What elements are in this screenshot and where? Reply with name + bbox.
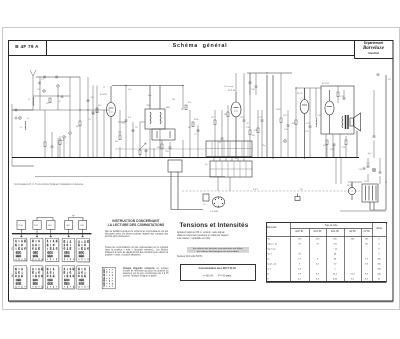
capacitor C6 [132, 130, 135, 131]
table text layer [266, 222, 386, 224]
svg-text:MF2: MF2 [166, 107, 171, 109]
wire left PU input [12, 165, 34, 167]
schematic caption [14, 183, 99, 186]
capacitor C19 [379, 172, 382, 173]
bracket tubes 2-3 [37, 218, 53, 221]
svg-text:R6: R6 [188, 127, 192, 129]
svg-text:L4: L4 [27, 118, 30, 120]
frame bottom shadow [9, 301, 393, 303]
resistor R9 [249, 130, 251, 135]
socket symbol box K4 [65, 221, 73, 230]
tensions paragraph [177, 231, 261, 240]
wire e [215, 105, 228, 158]
header divider left [46, 40, 48, 56]
svg-text:R3: R3 [92, 114, 96, 116]
resistor R15 [345, 140, 347, 145]
resistor R6 [192, 122, 194, 127]
commutation chart B5 [77, 266, 90, 290]
capacitor C14 [367, 166, 370, 167]
socket symbol box K3 [47, 221, 55, 230]
capacitor C8 [221, 138, 224, 139]
svg-text:EZ 80: EZ 80 [347, 185, 353, 187]
wire K5 drop [82, 229, 84, 233]
table col tube4 divider [361, 229, 363, 282]
arrow to chart 4 [68, 234, 70, 237]
IF transformer MF1b [152, 129, 175, 140]
power transformer TR2 [362, 184, 378, 210]
svg-text:LP: LP [203, 204, 206, 206]
tensions note lines [187, 247, 249, 253]
tube base bottom view [212, 197, 224, 207]
legend box [102, 267, 115, 289]
wire f [236, 73, 250, 158]
capacitor C1 [39, 82, 40, 85]
svg-text:MX1: MX1 [34, 225, 38, 227]
table col tube3 divider [344, 229, 346, 282]
wire osc line [33, 95, 70, 97]
antenna A1 [30, 70, 36, 110]
wire m top cluster [250, 73, 256, 95]
jack symbol [295, 194, 300, 201]
pentode V2 ECF80 [231, 92, 241, 158]
wire n [258, 110, 262, 158]
resistor R11 [295, 120, 297, 125]
side label AM [11, 274, 14, 277]
secteur line [177, 255, 252, 258]
commutation bus bar [12, 233, 92, 235]
svg-text:ECH 81: ECH 81 [100, 94, 108, 96]
resistor R18 [139, 150, 141, 155]
socket labels [18, 224, 84, 227]
arrow to chart 3 [50, 234, 52, 237]
svg-text:C14: C14 [90, 97, 95, 99]
instruction paragraph 1 [105, 230, 168, 238]
loudspeaker LS1 [350, 113, 361, 158]
resistor R2 [79, 121, 81, 126]
wire r stubs [45, 110, 154, 158]
table col tube2 divider [326, 229, 328, 282]
wire AVC vertical pair [267, 75, 273, 158]
svg-text:0,1: 0,1 [128, 117, 132, 119]
wire s right riser [60, 90, 374, 158]
table header bottom rule [267, 236, 387, 238]
svg-text:6,3 V: 6,3 V [253, 189, 258, 191]
trimmer CT1 [43, 90, 46, 93]
svg-text:HT: HT [388, 79, 392, 81]
svg-text:C4: C4 [88, 119, 92, 121]
chassis ground bus [12, 157, 359, 159]
svg-text:C9: C9 [246, 123, 250, 125]
svg-text:UY42: UY42 [18, 225, 23, 227]
svg-text:C11: C11 [305, 131, 310, 133]
voltage table bottom heavy rule [266, 281, 387, 283]
side label FM [12, 247, 14, 250]
table header type de tube rule [291, 228, 373, 230]
svg-text:ECL 86: ECL 86 [322, 83, 330, 85]
svg-text:C13: C13 [358, 169, 363, 171]
volume pot arrow [139, 143, 146, 150]
capacitor C17 [261, 120, 264, 121]
capacitor C1b [44, 76, 45, 79]
wire p bottom right [340, 158, 386, 211]
table col electrode divider [290, 223, 292, 282]
resistor R16 [161, 144, 163, 149]
svg-text:AM: AM [11, 274, 14, 277]
resistor R19b [59, 140, 61, 145]
output pentode V4 ECL86 [325, 90, 334, 134]
svg-text:ECF 80: ECF 80 [228, 90, 236, 92]
wire left input [12, 109, 33, 111]
svg-text:EF 85: EF 85 [297, 93, 303, 95]
resistor R1 [49, 98, 51, 103]
svg-text:10n: 10n [128, 89, 132, 91]
svg-text:S4: S4 [300, 189, 303, 191]
capacitor C12 [343, 98, 346, 99]
wire mid light [115, 148, 205, 150]
svg-text:C1: C1 [41, 79, 45, 81]
switch block S1a upper [206, 141, 252, 157]
wire top mid rail [247, 72, 292, 74]
svg-text:R4: R4 [115, 141, 119, 143]
svg-text:BF1: BF1 [48, 225, 51, 227]
capacitor C11 [309, 126, 312, 127]
arrow to chart 5 [82, 234, 84, 237]
trimmer CT5 [69, 132, 72, 135]
resistor R14 [326, 140, 328, 145]
tensions heading [180, 222, 380, 229]
svg-text:C2: C2 [58, 101, 62, 103]
wire k power [336, 158, 386, 210]
wire j heater drops [214, 158, 244, 191]
input jack J1 [12, 104, 17, 166]
dept box text [354, 41, 393, 55]
svg-text:C41: C41 [366, 163, 371, 165]
capacitor C13 [363, 168, 366, 169]
svg-text:L7: L7 [103, 87, 106, 89]
resistor R12 [337, 92, 339, 97]
pilot lamp LA1 [372, 168, 376, 172]
commutation chart B2 [31, 266, 44, 289]
wire b [88, 77, 97, 158]
svg-text:47k: 47k [188, 102, 192, 104]
commutation chart A1 [14, 238, 27, 261]
capacitor C18 [333, 144, 336, 145]
switch block S1 [210, 161, 252, 177]
trimmer CT2 [57, 85, 60, 88]
arrow to chart 1 [20, 234, 22, 237]
sheet title [46, 43, 354, 49]
pentode V3 [300, 88, 309, 158]
wire K4 drop [68, 229, 70, 233]
svg-text:R5: R5 [181, 109, 185, 111]
capacitor C15 [249, 82, 252, 83]
table col tube1 divider [309, 229, 311, 282]
capacitor C23 [373, 136, 376, 137]
svg-text:R12: R12 [283, 115, 288, 117]
coupling block [168, 160, 203, 210]
resistor R4 [119, 135, 121, 140]
coil L1 [32, 97, 35, 106]
wire K3 drop [50, 229, 52, 233]
wire q mid [118, 122, 170, 158]
header right cell bottom [355, 58, 394, 60]
wire i [326, 86, 344, 158]
wire K1 drop [20, 229, 22, 233]
trimmer CT6 [284, 140, 287, 143]
output transformer TR1 [342, 115, 348, 129]
commutation chart A5 [77, 238, 90, 262]
commutation chart A2 [31, 238, 44, 261]
svg-text:7 · - ·: 7 · - · [103, 285, 113, 288]
svg-text:C16: C16 [251, 89, 256, 91]
wire o below box [327, 136, 346, 158]
capacitor C4 [92, 112, 95, 113]
wire K2 drop [36, 229, 38, 233]
commutation chart B1 [14, 266, 27, 289]
capacitor C10 [287, 125, 290, 126]
capacitor C24 [377, 74, 380, 75]
resistor R5 [185, 105, 187, 110]
svg-text:HP: HP [72, 216, 75, 218]
svg-text:1M: 1M [172, 99, 175, 101]
capacitor C21 [51, 146, 54, 147]
capacitor C16 [255, 86, 258, 87]
resistor R8 [227, 112, 229, 117]
svg-text:C6: C6 [135, 127, 139, 129]
svg-text:L1: L1 [28, 99, 31, 101]
capacitor C20 [169, 147, 172, 148]
triode-heptode V1 ECH81 [106, 86, 115, 158]
svg-text:OS1: OS1 [80, 225, 84, 227]
capacitor C7 [197, 130, 200, 131]
svg-text:4µ7: 4µ7 [368, 153, 372, 155]
wire dashed heater rail [182, 190, 360, 192]
consommation box [180, 264, 256, 281]
resistor R17 [44, 142, 46, 147]
connector box LP [203, 194, 209, 201]
capacitor C22b [145, 150, 148, 151]
resistor R3 [96, 108, 98, 113]
svg-text:L13 comp: L13 comp [224, 86, 234, 88]
socket symbol box K2 [33, 221, 41, 230]
border frame [9, 41, 394, 302]
svg-text:25µ: 25µ [262, 145, 266, 147]
svg-text:L2: L2 [20, 127, 23, 129]
instruction paragraph 2 [105, 246, 168, 256]
svg-text:C20: C20 [165, 151, 170, 153]
capacitor C9 [243, 120, 246, 121]
wire h [296, 88, 321, 100]
commutation chart B3 [45, 266, 59, 289]
svg-text:R1: R1 [46, 103, 50, 105]
wire d [150, 86, 198, 159]
voltage table outer box [267, 223, 387, 282]
bracket tubes 4-5 [69, 218, 84, 221]
capacitor C1c [56, 76, 57, 79]
socket symbol box K1 [17, 221, 26, 230]
resistor R13 [257, 128, 259, 133]
svg-text:2k2: 2k2 [98, 105, 102, 107]
svg-text:L.P 6080: L.P 6080 [210, 211, 219, 213]
wire tuning gang line [12, 109, 110, 111]
resistor R7 [214, 120, 216, 125]
socket symbol box K5 [79, 221, 87, 230]
svg-text:R9: R9 [252, 135, 256, 137]
trimmer CT4 [63, 136, 66, 139]
wire g [281, 73, 316, 158]
header band bottom rule [8, 55, 354, 57]
wire grid rail V1 [112, 85, 183, 87]
svg-text:R19: R19 [118, 132, 123, 134]
wire c [120, 86, 133, 159]
wire B+ rail vertical [385, 75, 387, 210]
svg-text:R7: R7 [211, 117, 215, 119]
table col unites divider [372, 223, 374, 282]
svg-text:C7: C7 [194, 134, 198, 136]
capacitor C5 [125, 120, 128, 121]
instruction block title [104, 219, 168, 227]
bracket label [72, 216, 75, 218]
capacitor C3 [87, 100, 90, 101]
svg-text:220k: 220k [194, 119, 199, 121]
wire top-left rail [36, 76, 80, 78]
wire lower rail [35, 176, 225, 178]
rectifier V5 EZ80 [348, 182, 355, 200]
commutation chart A3 [45, 238, 59, 262]
header divider right [354, 40, 356, 59]
svg-text:R13: R13 [254, 130, 259, 132]
capacitor C2 [61, 96, 64, 97]
svg-text:C8: C8 [218, 142, 222, 144]
coil L3 [315, 118, 318, 127]
svg-text:TR: TR [364, 181, 367, 183]
svg-text:S1: S1 [205, 164, 208, 166]
coil L2 [24, 121, 27, 130]
svg-text:100k: 100k [276, 109, 281, 111]
svg-text:CA1: CA1 [66, 224, 70, 227]
trimmer CT3 [19, 117, 22, 120]
svg-text:R2: R2 [76, 126, 80, 128]
commutation chart B4 [62, 266, 75, 289]
resistor R10 [280, 118, 282, 123]
IF transformer MF1 [145, 86, 165, 130]
instruction paragraph 3 [123, 267, 169, 277]
svg-text:C5: C5 [122, 123, 126, 125]
model number [8, 44, 46, 49]
arrow to chart 2 [36, 234, 38, 237]
svg-text:FM: FM [12, 247, 14, 250]
commutation chart A4 [62, 238, 75, 261]
output stage box [321, 86, 354, 134]
svg-text:L18: L18 [318, 115, 322, 117]
voltage table right shadow [386, 224, 388, 282]
wire a [40, 77, 80, 158]
